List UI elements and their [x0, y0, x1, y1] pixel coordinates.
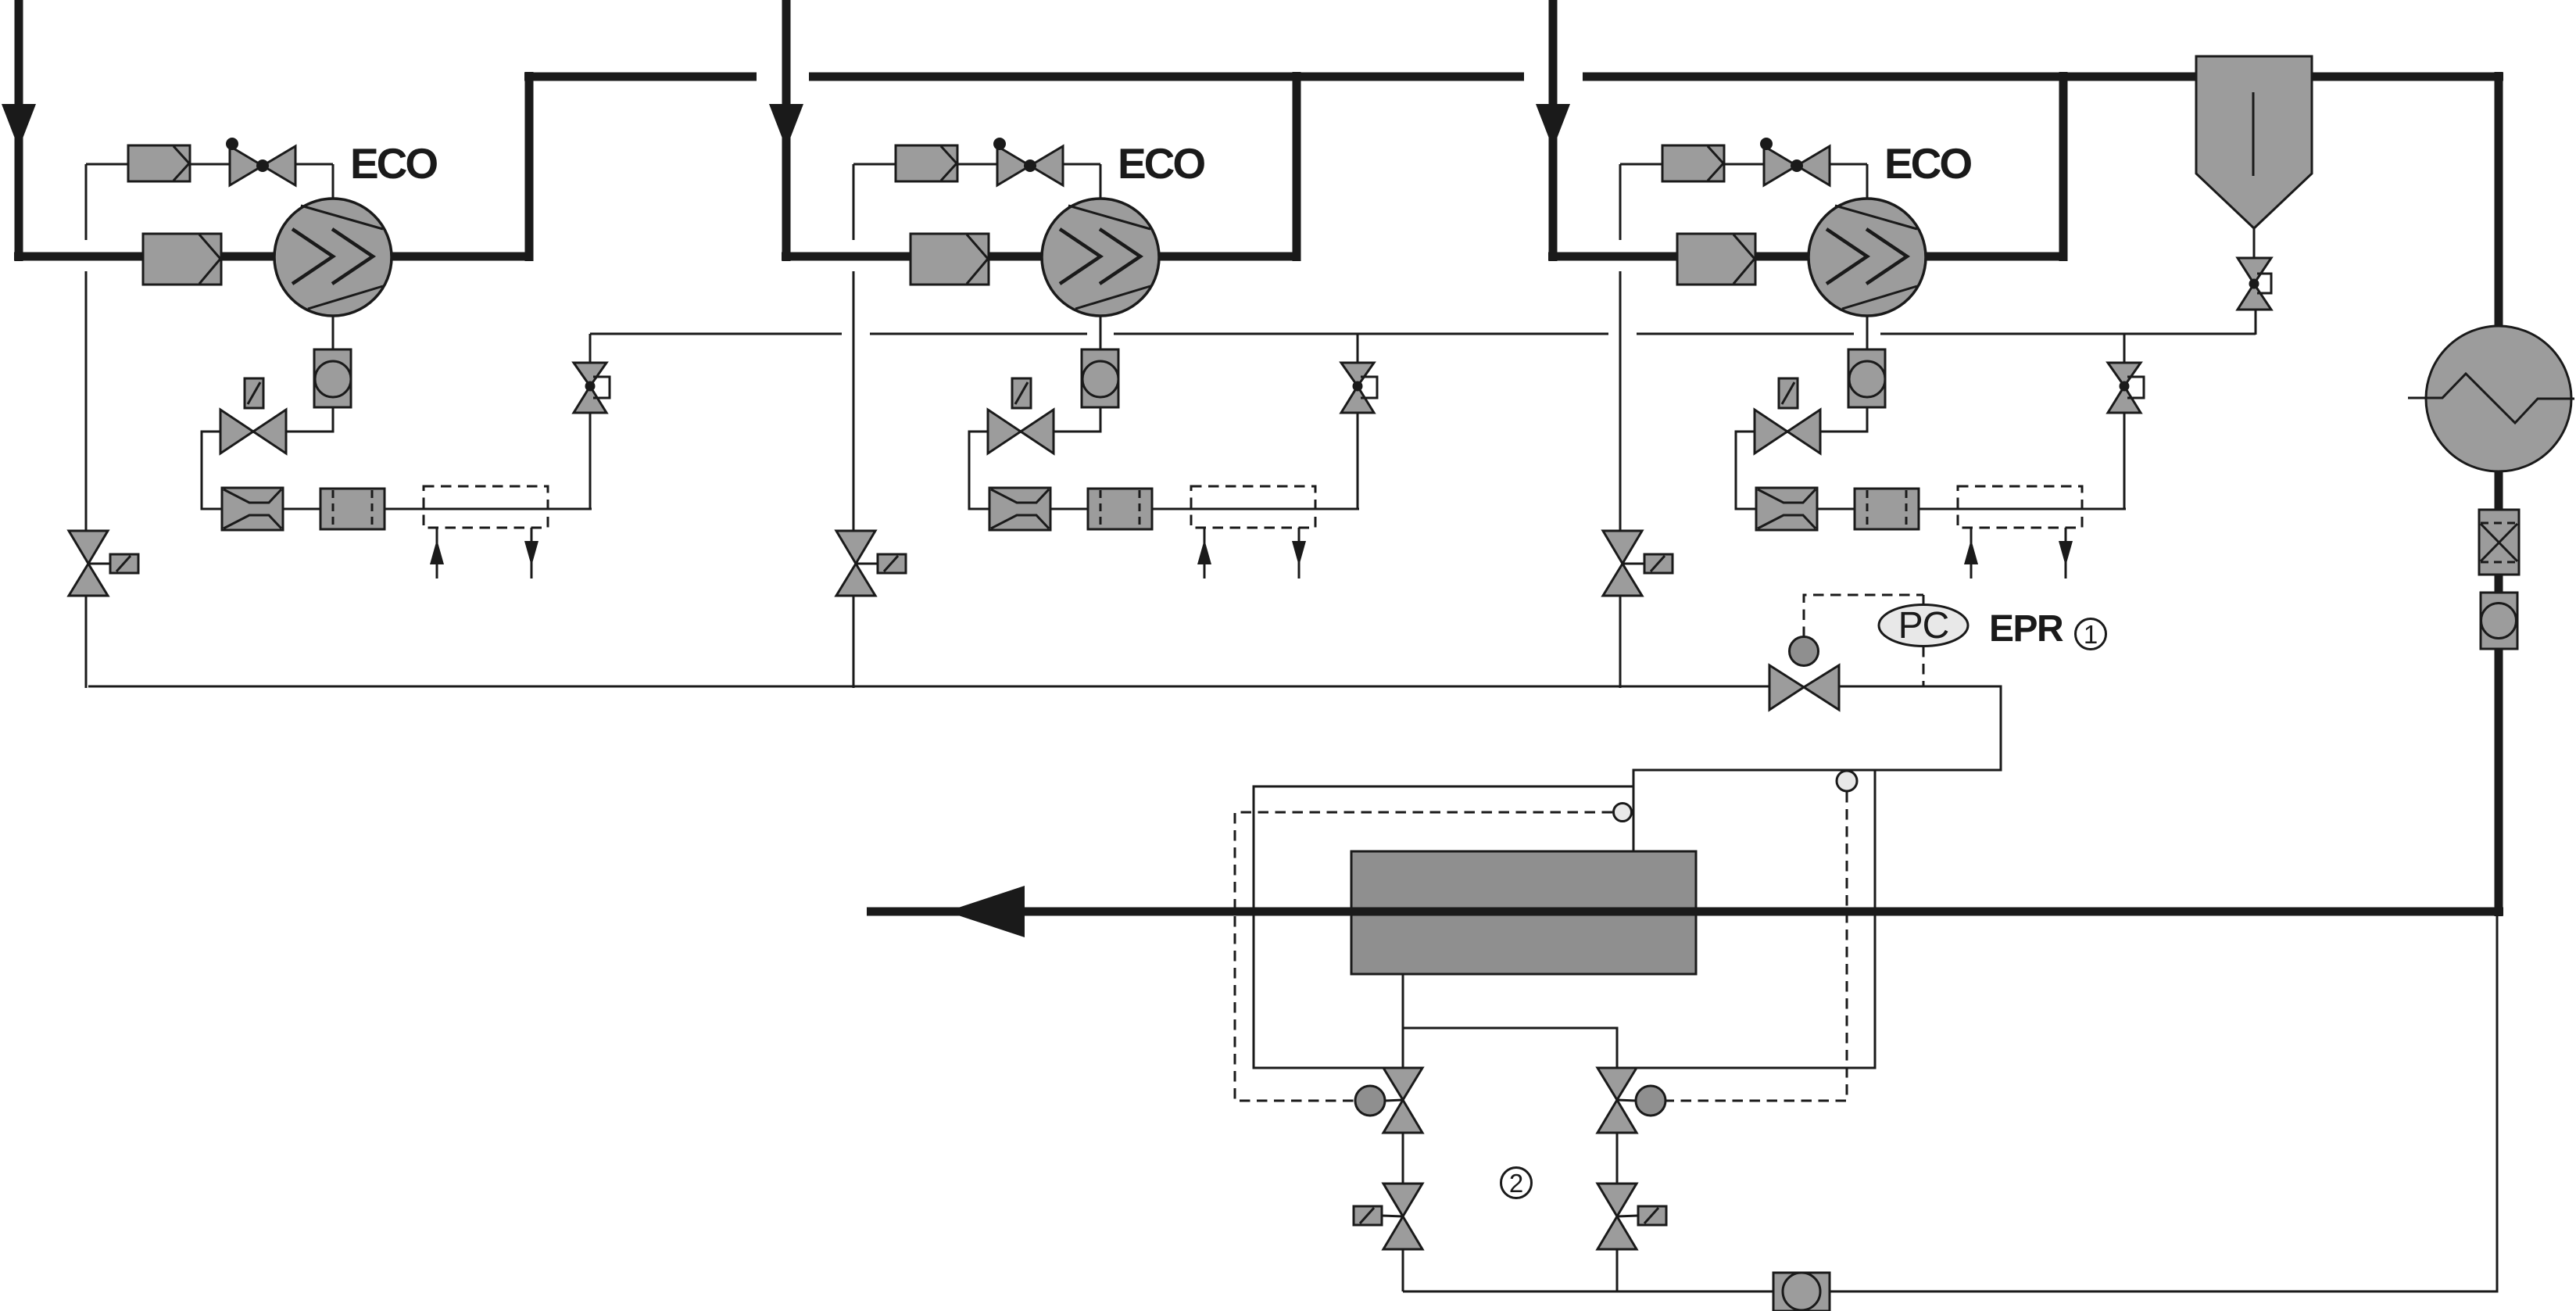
wire ECO vapour header seg4 — [1637, 333, 1854, 335]
wire suction inlet 1 — [15, 0, 23, 261]
wire injection riser upper 1 — [589, 334, 592, 363]
wire suction inlet 2 — [782, 0, 791, 261]
sight glass liquid line — [2481, 593, 2517, 649]
wire injection riser lower 3 — [2123, 413, 2126, 509]
wire suction line 2 — [782, 253, 1297, 261]
wire valve to strainer 1 — [202, 432, 592, 509]
wire compressor oil stub 3 — [1866, 315, 1869, 351]
wire ECO branch line 1 — [86, 163, 333, 166]
wire right valve chain mid — [1616, 1131, 1619, 1185]
wire discharge riser 1 — [525, 72, 534, 261]
wire ECO vapour header seg2 — [870, 333, 1087, 335]
wire ECO port drop 1 — [332, 164, 335, 202]
wire condenser downcomer (right vertical) — [2495, 72, 2503, 916]
node oil separator vessel — [2196, 56, 2312, 228]
strainer F1c — [222, 488, 283, 530]
sight glass oil return — [1773, 1273, 1830, 1311]
wire liquid drain lower 2 — [853, 594, 855, 688]
wire ECO port drop 2 — [1100, 164, 1102, 202]
wire right sensor dashed loop — [1666, 792, 1847, 1101]
node ECO label 3 — [1884, 139, 1971, 188]
filter ECO F2b — [896, 145, 957, 181]
node return flow arrow — [946, 886, 1025, 937]
svg-text:ECO: ECO — [1884, 139, 1971, 188]
wire ECO vapour header seg5 — [1880, 333, 2256, 335]
sight glass oil regulator 2 — [1082, 349, 1118, 407]
valve ECO shutoff V1a — [226, 138, 295, 185]
wire valve cross branch — [1403, 1028, 1617, 1069]
valve ECO injection V3c — [2108, 363, 2144, 413]
wire liquid drain upper 3 — [1619, 164, 1622, 240]
node inlet flow arrow 1 — [2, 104, 36, 149]
wire ECO vapour header seg3 — [1114, 333, 1608, 335]
wire ECO branch line 3 — [1620, 163, 1867, 166]
wire right valve chain low — [1616, 1248, 1619, 1291]
node sensor left — [1614, 804, 1632, 822]
wire liquid drain mid 3 — [1619, 271, 1622, 532]
wire injection riser lower 2 — [1357, 413, 1359, 509]
wire injection riser lower 1 — [589, 413, 592, 509]
filter suction F3a — [1677, 234, 1755, 285]
node coolant in arrow 3 — [1964, 528, 1978, 578]
wire left valve chain mid — [1402, 1131, 1404, 1185]
node coolant out arrow 2 — [1292, 528, 1306, 578]
node condenser heat exchanger — [2408, 326, 2574, 471]
compressor M1 — [274, 199, 392, 316]
svg-text:ECO: ECO — [1118, 139, 1204, 188]
valve solenoid right — [1597, 1184, 1666, 1249]
valve liquid injection V2b — [988, 378, 1054, 453]
wire discharge riser 3 — [2059, 72, 2068, 261]
wire liquid drain upper 1 — [85, 164, 88, 240]
wire sight glass to valve 1 — [286, 406, 333, 432]
valve ECO shutoff V2a — [993, 138, 1063, 185]
wire bottom oil return line — [1403, 916, 2497, 1291]
node ECO label 1 — [350, 139, 437, 188]
wire liquid drain lower 1 — [85, 594, 88, 688]
wire valve to strainer 2 — [969, 432, 1359, 509]
valve separator drain — [2238, 258, 2271, 310]
node coolant out arrow 1 — [524, 528, 538, 578]
valve solenoid left — [1354, 1184, 1422, 1249]
strainer F3c — [1756, 488, 1817, 530]
filter suction F1a — [143, 234, 221, 285]
valve liquid injection V3b — [1755, 378, 1820, 453]
wire valve to strainer 3 — [1736, 432, 2126, 509]
valve ECO injection V1c — [574, 363, 610, 413]
wire suction header top (discharge header) — [524, 73, 2503, 81]
wire compressor oil stub 2 — [1100, 315, 1102, 351]
wire liquid header — [88, 686, 1769, 688]
filter drier liquid line — [2479, 510, 2519, 575]
wire liquid drain mid 1 — [85, 271, 88, 532]
wire liquid drain upper 2 — [853, 164, 855, 240]
node inlet flow arrow 3 — [1536, 104, 1570, 149]
wire evaporator bottom stub — [1402, 974, 1404, 1069]
wire recirculation top — [1254, 786, 1633, 1068]
valve EPR main — [1769, 637, 1839, 711]
wire separator drain upper — [2253, 228, 2256, 259]
svg-text:EPR: EPR — [1989, 608, 2063, 650]
node PC controller — [1879, 605, 1968, 647]
wire discharge riser 2 — [1293, 72, 1301, 261]
node optional subcooler (dashed) 2 — [1191, 486, 1315, 528]
wire evaporator feed branch — [1617, 770, 1875, 1068]
node optional subcooler (dashed) 3 — [1958, 486, 2082, 528]
node coolant in arrow 2 — [1197, 528, 1211, 578]
filter drier F2d — [1088, 489, 1152, 529]
wire left sensor dashed loop — [1235, 812, 1612, 1101]
wire injection riser upper 3 — [2123, 334, 2126, 363]
wire left valve chain low — [1402, 1248, 1404, 1291]
valve drain shutoff V2d — [836, 531, 906, 596]
node inlet flow arrow 2 — [769, 104, 803, 149]
wire ECO port drop 3 — [1866, 164, 1869, 202]
sight glass oil regulator 1 — [314, 349, 351, 407]
filter ECO F3b — [1662, 145, 1724, 181]
filter drier F1d — [320, 489, 385, 529]
filter drier F3d — [1855, 489, 1919, 529]
node EPR label — [1989, 608, 2063, 650]
valve expansion motor left — [1355, 1068, 1422, 1133]
sight glass oil regulator 3 — [1848, 349, 1885, 407]
compressor M3 — [1809, 199, 1926, 316]
strainer F2c — [989, 488, 1050, 530]
valve drain shutoff V1d — [69, 531, 138, 596]
node coolant in arrow 1 — [430, 528, 444, 578]
svg-text:PC: PC — [1898, 605, 1949, 647]
valve drain shutoff V3d — [1603, 531, 1673, 596]
wire injection riser upper 2 — [1357, 334, 1359, 363]
svg-text:1: 1 — [2084, 620, 2098, 649]
wire ECO vapour header seg1 — [590, 333, 842, 335]
wire liquid return main (thick bottom) — [867, 908, 2503, 916]
wire suction inlet 3 — [1549, 0, 1558, 261]
node ECO label 2 — [1118, 139, 1204, 188]
filter suction F2a — [911, 234, 989, 285]
valve ECO injection V2c — [1341, 363, 1377, 413]
filter ECO F1b — [128, 145, 190, 181]
wire compressor oil stub 1 — [332, 315, 335, 351]
node sensor right — [1837, 771, 1857, 791]
valve expansion motor right — [1597, 1068, 1665, 1133]
node evaporator — [1351, 851, 1696, 974]
node callout 1 — [2076, 619, 2106, 650]
wire EPR pilot dashed — [1804, 595, 1923, 686]
compressor M2 — [1042, 199, 1159, 316]
node callout 2 — [1501, 1168, 1532, 1198]
svg-text:2: 2 — [1509, 1169, 1523, 1198]
wire suction line 3 — [1548, 253, 2063, 261]
wire ECO branch line 2 — [853, 163, 1100, 166]
wire EPR outlet — [1633, 686, 2001, 854]
svg-text:ECO: ECO — [350, 139, 437, 188]
node optional subcooler (dashed) 1 — [424, 486, 548, 528]
wire sight glass to valve 3 — [1820, 406, 1867, 432]
wire sight glass to valve 2 — [1054, 406, 1100, 432]
wire separator drain lower — [2255, 310, 2257, 335]
valve ECO shutoff V3a — [1760, 138, 1830, 185]
wire liquid drain lower 3 — [1619, 594, 1622, 688]
wire liquid drain mid 2 — [853, 271, 855, 532]
valve liquid injection V1b — [220, 378, 286, 453]
node coolant out arrow 3 — [2059, 528, 2073, 578]
wire suction line 1 — [14, 253, 529, 261]
